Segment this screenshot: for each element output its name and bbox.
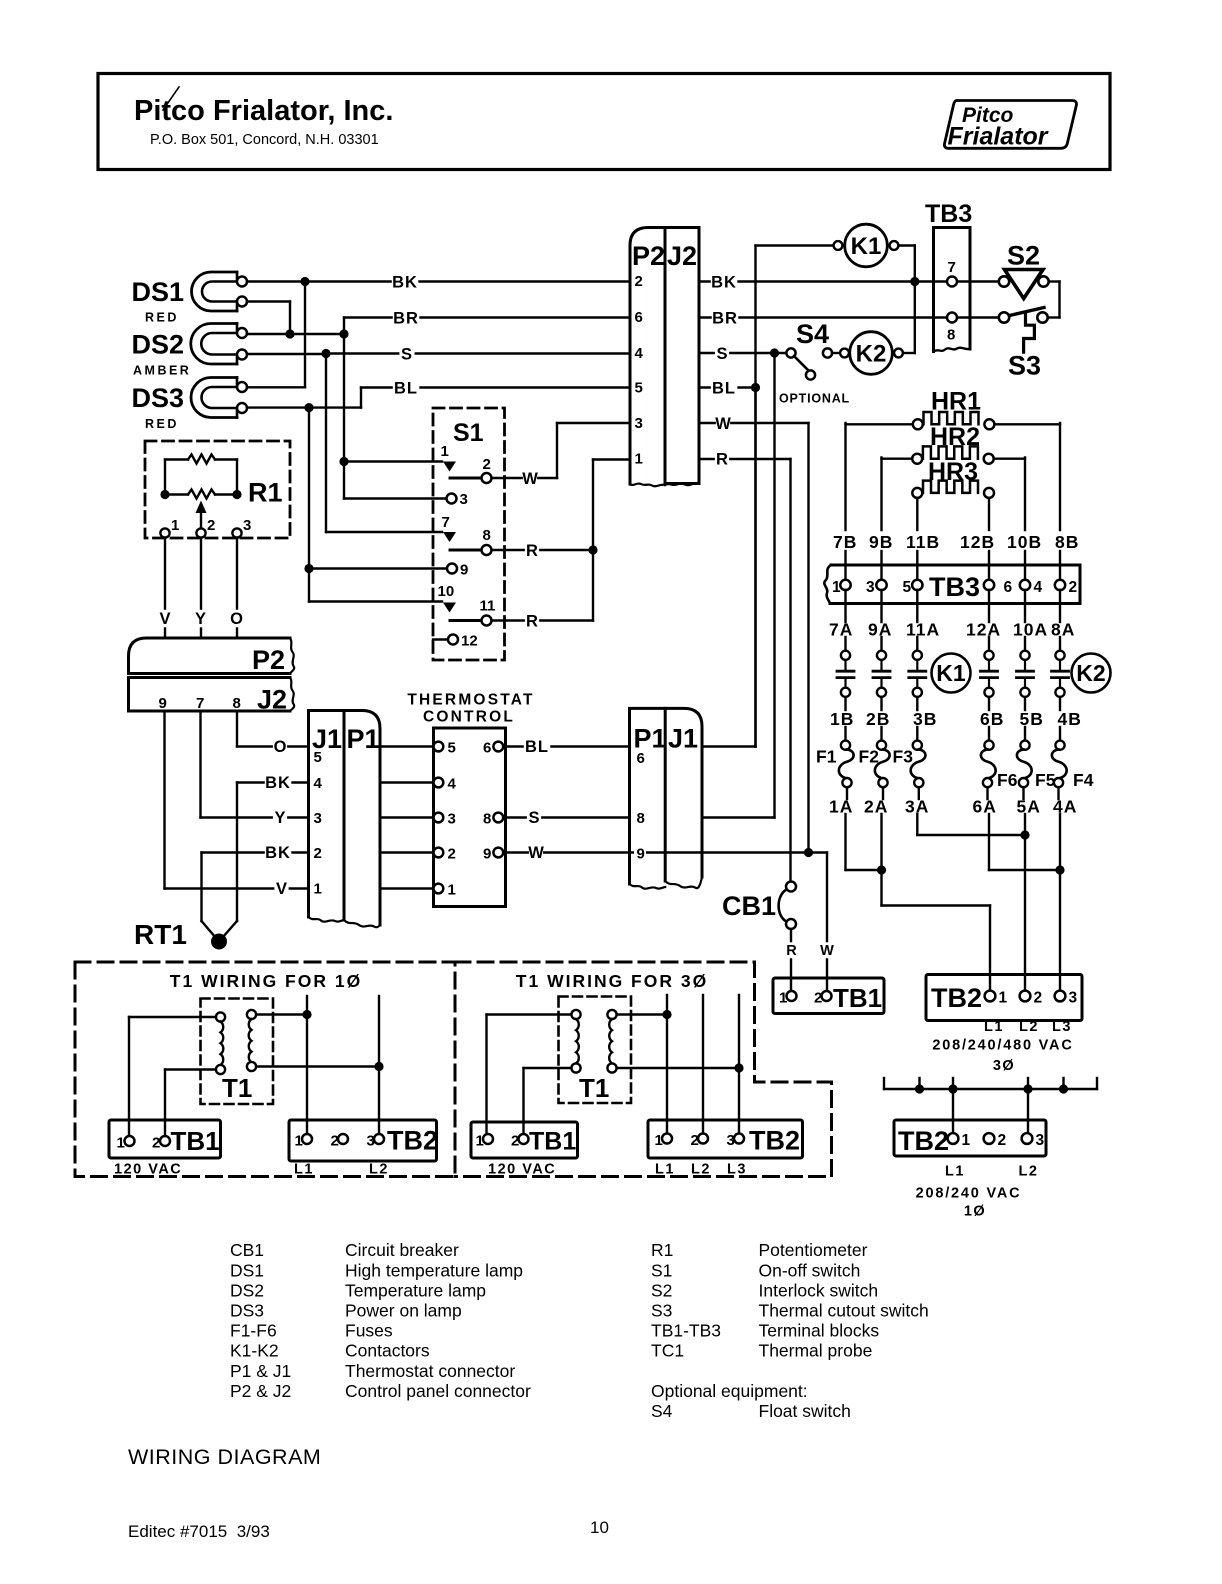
svg-text:208/240/480 VAC: 208/240/480 VAC: [932, 1038, 1073, 1054]
wire 2A to TB2 pin1: [882, 814, 991, 991]
svg-text:10A: 10A: [1013, 620, 1048, 640]
svg-text:DS2: DS2: [132, 329, 185, 359]
switch S1 lever 1-2: [450, 477, 480, 480]
svg-text:On-off switch: On-off switch: [759, 1260, 861, 1280]
wire R net S1 to P2J2 pin1: [492, 460, 630, 621]
svg-text:R1: R1: [651, 1240, 673, 1260]
svg-text:S2: S2: [1007, 241, 1040, 271]
svg-text:J1: J1: [668, 724, 698, 754]
svg-text:BK: BK: [265, 844, 291, 862]
wires T1 left primary: [129, 1017, 216, 1136]
svg-text:1: 1: [448, 882, 456, 899]
svg-text:1: 1: [999, 990, 1008, 1007]
svg-text:T1: T1: [579, 1073, 609, 1103]
svg-text:Contactors: Contactors: [345, 1341, 430, 1361]
wire BR net: [247, 302, 630, 499]
svg-text:WIRING DIAGRAM: WIRING DIAGRAM: [128, 1445, 321, 1469]
switch S1 lever 10-11: [450, 619, 480, 622]
svg-text:5: 5: [635, 380, 643, 397]
svg-text:V: V: [276, 880, 287, 898]
svg-text:Frialator: Frialator: [948, 123, 1049, 151]
wire BK row right: [699, 273, 999, 291]
svg-text:2: 2: [314, 845, 322, 862]
terminal block TB2 three phase: [926, 975, 1082, 1075]
thermal probe RT1: [134, 919, 227, 950]
svg-text:F1-F6: F1-F6: [230, 1321, 277, 1341]
svg-text:3: 3: [243, 517, 251, 534]
terminal block TB3 main: [824, 551, 1080, 622]
svg-text:K2: K2: [1076, 660, 1105, 686]
wire 1A to 2A: [846, 814, 887, 875]
svg-text:F5: F5: [1035, 770, 1056, 790]
fuse F3: [893, 727, 926, 799]
node labels 1A 2A 3A 6A 5A 4A: [829, 797, 1077, 817]
svg-text:J2: J2: [667, 241, 697, 271]
svg-text:S4: S4: [796, 319, 829, 349]
svg-text:7B: 7B: [833, 532, 857, 552]
wire Y J2 pin7 to J1 pin3: [201, 711, 309, 827]
svg-text:TC1: TC1: [651, 1341, 684, 1361]
svg-text:10: 10: [438, 583, 455, 600]
wire BK net: [247, 277, 630, 387]
wire S thermostat pin8 to P1J1 pin8: [503, 809, 629, 827]
svg-text:8: 8: [637, 810, 645, 827]
svg-text:BR: BR: [712, 310, 738, 328]
switch S1 lever 7-8: [450, 549, 480, 552]
svg-text:2: 2: [331, 1133, 339, 1150]
heater HR3: [912, 458, 994, 530]
switch S1 pin11: [482, 616, 492, 626]
wire W row right: [699, 415, 809, 853]
svg-text:Terminal blocks: Terminal blocks: [759, 1321, 880, 1341]
svg-text:1: 1: [295, 1133, 303, 1150]
svg-text:F2: F2: [859, 747, 880, 767]
svg-text:W: W: [522, 470, 538, 488]
potentiometer R1 wiper: [196, 501, 207, 534]
svg-text:R: R: [716, 451, 728, 469]
svg-text:2: 2: [448, 846, 456, 863]
svg-text:S: S: [401, 346, 413, 364]
svg-text:3Ø: 3Ø: [993, 1058, 1015, 1074]
svg-text:3: 3: [448, 811, 456, 828]
svg-text:1: 1: [476, 1133, 484, 1150]
svg-text:1A: 1A: [829, 797, 853, 817]
svg-text:Potentiometer: Potentiometer: [759, 1240, 868, 1260]
svg-text:W: W: [528, 844, 544, 862]
svg-text:L1: L1: [945, 1164, 965, 1180]
svg-text:12B: 12B: [960, 532, 995, 552]
svg-text:5: 5: [903, 579, 912, 596]
svg-text:THERMOSTAT: THERMOSTAT: [407, 692, 534, 709]
wire label R upper: [525, 542, 539, 560]
terminal block TB1 middle: [471, 1122, 578, 1178]
svg-text:3: 3: [1036, 1132, 1045, 1149]
heater HR2: [882, 423, 1026, 530]
switch S1 pin3: [447, 494, 457, 504]
wire label S left: [399, 345, 414, 363]
svg-text:R: R: [526, 542, 538, 560]
svg-text:2: 2: [1034, 990, 1043, 1007]
svg-text:R1: R1: [248, 478, 283, 508]
svg-text:P2: P2: [252, 645, 285, 675]
svg-text:7: 7: [196, 695, 204, 712]
wire BR row right: [699, 309, 1000, 327]
svg-text:Temperature lamp: Temperature lamp: [345, 1280, 486, 1300]
svg-text:S1: S1: [651, 1260, 672, 1280]
wire W from S1 pin2 to P2J2 pin3: [492, 423, 630, 478]
svg-text:AMBER: AMBER: [133, 364, 191, 378]
wires T1 right secondary: [617, 995, 744, 1133]
svg-text:K1-K2: K1-K2: [230, 1341, 279, 1361]
svg-text:4: 4: [314, 775, 323, 792]
svg-text:P2: P2: [632, 241, 665, 271]
svg-text:W: W: [820, 943, 834, 959]
thermal cutout switch S3: [999, 308, 1048, 381]
svg-text:T1 WIRING FOR 1Ø: T1 WIRING FOR 1Ø: [170, 971, 362, 991]
svg-text:Fuses: Fuses: [345, 1321, 393, 1341]
svg-text:4: 4: [635, 345, 644, 362]
heater HR1: [846, 388, 1061, 531]
svg-text:120 VAC: 120 VAC: [488, 1162, 556, 1178]
wire R row right: [699, 450, 791, 881]
svg-text:P2 & J2: P2 & J2: [230, 1381, 291, 1401]
svg-text:DS3: DS3: [230, 1301, 264, 1321]
svg-text:9: 9: [637, 846, 645, 863]
svg-text:S4: S4: [651, 1401, 673, 1421]
svg-text:P.O. Box 501, Concord, N.H. 03: P.O. Box 501, Concord, N.H. 03301: [150, 132, 379, 148]
svg-text:1: 1: [962, 1132, 971, 1149]
svg-text:9: 9: [483, 846, 491, 863]
contactor coil K1: [756, 224, 915, 746]
fuse F2: [859, 727, 890, 799]
wires T1 right primary: [487, 1015, 572, 1135]
svg-text:Thermal cutout switch: Thermal cutout switch: [759, 1301, 929, 1321]
svg-text:K1: K1: [936, 660, 966, 686]
svg-text:1: 1: [655, 1132, 663, 1149]
svg-text:TB1: TB1: [171, 1126, 220, 1156]
wire 3A to 5A: [917, 814, 1029, 840]
svg-text:F3: F3: [893, 747, 914, 767]
enclosure T1 wiring for 3-phase: [455, 962, 832, 1177]
svg-text:5: 5: [314, 749, 322, 766]
svg-text:2: 2: [1069, 579, 1078, 596]
svg-text:O: O: [230, 610, 243, 628]
fuse F4: [1052, 727, 1094, 799]
lamp DS3: [132, 378, 248, 432]
svg-text:9A: 9A: [868, 620, 892, 640]
svg-text:TB1: TB1: [529, 1128, 576, 1156]
terminal block TB2 left: [289, 1120, 438, 1178]
svg-text:TB1-TB3: TB1-TB3: [651, 1321, 721, 1341]
svg-text:L1: L1: [294, 1162, 314, 1178]
svg-text:5B: 5B: [1020, 709, 1044, 729]
svg-text:1B: 1B: [830, 709, 854, 729]
svg-text:Y: Y: [274, 809, 285, 827]
svg-text:208/240 VAC: 208/240 VAC: [916, 1186, 1022, 1202]
svg-text:6: 6: [637, 750, 645, 767]
svg-text:6: 6: [635, 309, 643, 326]
svg-text:8: 8: [947, 327, 955, 344]
svg-text:DS1: DS1: [230, 1260, 264, 1280]
wire label BK left: [392, 273, 419, 291]
svg-text:CB1: CB1: [230, 1240, 264, 1260]
wire V Y O from R1 to P2 connector: [158, 538, 244, 638]
connector P2 J2 control panel: [129, 638, 295, 715]
svg-text:CONTROL: CONTROL: [423, 709, 515, 726]
svg-text:2: 2: [483, 456, 491, 473]
wire S net: [247, 349, 630, 532]
svg-text:BR: BR: [393, 310, 419, 328]
fuse F6: [981, 727, 1018, 799]
incoming line bus single phase: [884, 1078, 1097, 1134]
svg-text:S3: S3: [651, 1301, 672, 1321]
svg-text:1: 1: [635, 451, 643, 468]
svg-text:S2: S2: [651, 1280, 672, 1300]
svg-text:3: 3: [367, 1133, 375, 1150]
float switch S4: [779, 319, 850, 406]
node labels 7A 9A 11A 12A 10A 8A: [829, 620, 1075, 640]
svg-text:2: 2: [998, 1132, 1007, 1149]
svg-text:P1: P1: [634, 724, 667, 754]
terminal block TB2 single phase: [894, 1120, 1046, 1220]
terminal block TB1 left: [109, 1120, 221, 1178]
svg-text:Optional equipment:: Optional equipment:: [651, 1381, 808, 1401]
svg-text:8B: 8B: [1055, 532, 1079, 552]
svg-text:Interlock switch: Interlock switch: [759, 1280, 879, 1300]
potentiometer R1 terminals: [160, 517, 251, 538]
svg-text:8: 8: [233, 695, 241, 712]
svg-text:9: 9: [460, 562, 468, 579]
svg-text:2A: 2A: [864, 797, 888, 817]
svg-text:L2: L2: [369, 1162, 389, 1178]
transformer T1 right: [559, 997, 632, 1104]
svg-text:BL: BL: [525, 738, 549, 756]
svg-text:L3: L3: [727, 1162, 747, 1178]
svg-text:10B: 10B: [1007, 532, 1042, 552]
svg-text:5A: 5A: [1017, 797, 1041, 817]
terminal block TB1 right: [773, 978, 884, 1014]
wire BL P1J1 pin6 up to BL net: [702, 388, 756, 747]
svg-text:Thermal probe: Thermal probe: [759, 1341, 873, 1361]
wire V J2 pin9 to J1 pin1: [165, 711, 309, 898]
svg-text:L2: L2: [691, 1162, 711, 1178]
wire BK J1 pin4 to RT1: [219, 774, 309, 942]
thermostat right pins: [483, 740, 503, 863]
svg-text:L1: L1: [984, 1019, 1004, 1035]
svg-text:RED: RED: [145, 417, 179, 431]
circuit breaker CB1: [722, 882, 834, 992]
svg-text:F6: F6: [997, 770, 1018, 790]
svg-text:11A: 11A: [906, 620, 940, 640]
header frame: [98, 74, 1110, 170]
svg-text:RED: RED: [145, 311, 179, 325]
wire S row right to S4: [699, 345, 787, 363]
connector J1P1: [309, 711, 381, 928]
svg-text:F1: F1: [816, 747, 837, 767]
svg-text:BL: BL: [394, 380, 418, 398]
svg-text:TB3: TB3: [929, 572, 980, 602]
thermostat left pins: [434, 740, 457, 899]
svg-text:T1: T1: [222, 1073, 252, 1103]
svg-text:Y: Y: [195, 610, 206, 628]
svg-text:12A: 12A: [966, 620, 1001, 640]
enclosure T1 wiring for 1-phase: [75, 962, 455, 1177]
connector P1J1: [630, 708, 703, 888]
svg-text:RT1: RT1: [134, 919, 187, 950]
thermostat control box: [407, 692, 534, 907]
svg-text:R: R: [526, 613, 538, 631]
wire label BL left: [393, 379, 420, 397]
svg-text:6B: 6B: [980, 709, 1004, 729]
potentiometer R1 box: [145, 441, 290, 538]
svg-text:T1 WIRING FOR 3Ø: T1 WIRING FOR 3Ø: [516, 971, 708, 991]
switch S1 pin2: [482, 473, 492, 483]
interlock switch S2: [999, 241, 1060, 318]
pen mark: [163, 87, 179, 110]
svg-text:S1: S1: [453, 419, 484, 447]
svg-text:11B: 11B: [906, 532, 940, 552]
svg-text:S: S: [716, 345, 727, 363]
svg-text:V: V: [159, 610, 170, 628]
svg-text:1: 1: [779, 990, 787, 1007]
lamp DS2: [132, 324, 248, 378]
svg-text:F4: F4: [1073, 770, 1094, 790]
svg-text:8A: 8A: [1051, 620, 1075, 640]
svg-text:TB2: TB2: [749, 1126, 800, 1156]
svg-text:J2: J2: [257, 685, 287, 715]
svg-text:120 VAC: 120 VAC: [114, 1162, 182, 1178]
svg-text:9: 9: [159, 695, 167, 712]
svg-text:R: R: [786, 943, 797, 959]
svg-text:6: 6: [1004, 579, 1013, 596]
svg-text:P1 & J1: P1 & J1: [230, 1361, 291, 1381]
wire O J2 pin8 to J1 pin5: [237, 711, 309, 756]
svg-text:1: 1: [117, 1135, 125, 1152]
switch S1 pin8: [482, 545, 492, 555]
svg-text:7: 7: [442, 514, 450, 531]
svg-text:TB3: TB3: [925, 200, 972, 228]
svg-text:K1: K1: [851, 233, 882, 260]
svg-text:BK: BK: [392, 274, 418, 292]
svg-text:8: 8: [483, 527, 491, 544]
svg-text:DS1: DS1: [132, 277, 185, 307]
wire BL net: [247, 388, 630, 602]
svg-text:2: 2: [207, 517, 215, 534]
svg-text:2: 2: [691, 1132, 699, 1149]
svg-text:11: 11: [480, 598, 496, 615]
svg-text:CB1: CB1: [722, 891, 776, 921]
svg-text:DS2: DS2: [230, 1280, 264, 1300]
svg-text:TB2: TB2: [387, 1126, 438, 1156]
wire 5A to TB2 pin2: [1024, 814, 1026, 991]
svg-text:5: 5: [448, 740, 456, 757]
svg-text:TB2: TB2: [931, 983, 982, 1013]
svg-text:3: 3: [314, 810, 322, 827]
svg-text:Float switch: Float switch: [759, 1401, 851, 1421]
wires T1 left secondary: [256, 996, 384, 1134]
switch S1 pin12 stub: [433, 638, 448, 640]
svg-text:1Ø: 1Ø: [964, 1204, 986, 1220]
svg-text:S3: S3: [1008, 351, 1041, 381]
svg-text:4: 4: [1034, 579, 1043, 596]
wire label R lower: [525, 612, 539, 630]
svg-text:2B: 2B: [866, 709, 890, 729]
wires P1 to thermostat: [380, 747, 434, 889]
switch S1 box: [433, 408, 505, 660]
wire W thermostat pin9 through P1J1 pin9 to TB1: [503, 844, 827, 991]
svg-text:BK: BK: [711, 274, 737, 292]
svg-text:L2: L2: [1019, 1019, 1039, 1035]
svg-text:P1: P1: [347, 724, 380, 754]
node labels 7B 9B 11B 12B 10B 8B: [833, 532, 1079, 552]
svg-text:K2: K2: [856, 341, 887, 368]
svg-text:7: 7: [948, 259, 956, 276]
wire 6A to 4A: [989, 814, 1065, 875]
svg-text:Thermostat connector: Thermostat connector: [345, 1361, 515, 1381]
svg-text:S: S: [528, 809, 539, 827]
wire BL row right: [699, 379, 760, 397]
svg-text:4A: 4A: [1053, 797, 1077, 817]
svg-text:TB1: TB1: [833, 983, 882, 1013]
svg-text:L1: L1: [655, 1162, 675, 1178]
lamp DS1: [132, 272, 248, 325]
contactor K2 contacts: [981, 637, 1111, 710]
svg-text:1: 1: [171, 517, 179, 534]
svg-text:2: 2: [511, 1133, 519, 1150]
svg-text:9B: 9B: [869, 532, 893, 552]
terminal block TB2 middle: [648, 1120, 803, 1178]
wire label BR left: [393, 309, 420, 327]
svg-text:Power on lamp: Power on lamp: [345, 1301, 462, 1321]
wire S P1J1 pin8 up to S4 junction: [702, 353, 775, 818]
contactor K1 contacts: [837, 637, 971, 710]
svg-text:1: 1: [314, 881, 322, 898]
svg-text:1: 1: [441, 443, 449, 460]
potentiometer R1 fixed resistor: [165, 455, 237, 495]
svg-text:8: 8: [483, 811, 491, 828]
wire BL thermostat pin6 to P1J1 pin6: [503, 738, 629, 756]
svg-text:Editec #7015 3/93: Editec #7015 3/93: [128, 1522, 270, 1541]
svg-text:3: 3: [727, 1132, 735, 1149]
svg-text:BK: BK: [265, 774, 291, 792]
svg-text:Circuit breaker: Circuit breaker: [345, 1240, 459, 1260]
svg-text:L2: L2: [1019, 1164, 1039, 1180]
svg-text:2: 2: [635, 273, 643, 290]
svg-text:6A: 6A: [973, 797, 997, 817]
svg-text:4: 4: [448, 776, 457, 793]
svg-text:O: O: [274, 738, 287, 756]
svg-text:12: 12: [461, 633, 478, 650]
svg-text:3: 3: [1069, 990, 1078, 1007]
svg-text:3: 3: [460, 491, 468, 508]
svg-text:Pitco Frialator, Inc.: Pitco Frialator, Inc.: [134, 95, 393, 127]
switch S1 pin9: [447, 564, 457, 574]
svg-text:TB2: TB2: [898, 1126, 949, 1156]
fuse F1: [816, 727, 854, 799]
wire 4A to TB2 pin3: [1059, 814, 1061, 991]
connector P2J2: [630, 228, 699, 487]
svg-text:2: 2: [814, 990, 822, 1007]
contactor coil K2: [840, 332, 915, 375]
svg-text:3: 3: [635, 415, 643, 432]
svg-text:10: 10: [590, 1518, 609, 1537]
svg-text:L3: L3: [1052, 1019, 1072, 1035]
svg-text:Control panel connector: Control panel connector: [345, 1381, 531, 1401]
node labels 1B 2B 3B 6B 5B 4B: [830, 709, 1082, 729]
svg-text:High temperature lamp: High temperature lamp: [345, 1260, 523, 1280]
svg-text:3: 3: [866, 579, 875, 596]
wire label W: [523, 470, 537, 488]
